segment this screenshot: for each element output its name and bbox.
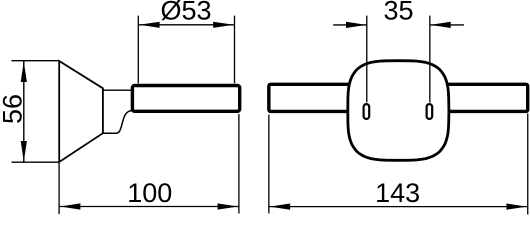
svg-text:100: 100 [127,178,172,208]
svg-text:56: 56 [0,94,28,124]
svg-text:143: 143 [375,178,420,208]
svg-text:Ø53: Ø53 [160,0,211,26]
svg-text:35: 35 [384,0,414,26]
